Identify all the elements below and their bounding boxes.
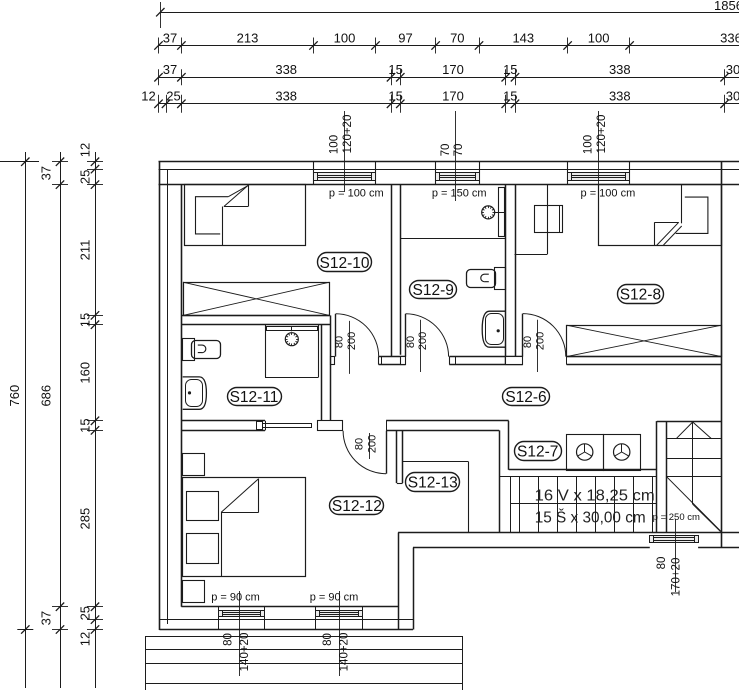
shower symbol S12-9 [482, 206, 495, 219]
pillow 2 [187, 534, 219, 564]
svg-text:15: 15 [388, 89, 402, 104]
svg-text:80: 80 [656, 557, 668, 570]
stairs: walking line [692, 422, 694, 504]
shower symbol tick [485, 207, 486, 209]
svg-text:70: 70 [453, 144, 465, 157]
stair tread [510, 476, 512, 532]
terrace line [145, 649, 462, 651]
bathtub S12-11 [183, 377, 207, 409]
desk with chair [535, 206, 563, 233]
nightstand bottom [183, 581, 205, 603]
svg-text:170: 170 [442, 62, 464, 77]
svg-text:S12-11: S12-11 [230, 389, 279, 406]
dimension line row4 [159, 103, 739, 105]
machine drum spoke [584, 444, 586, 452]
machine drum spoke [578, 452, 585, 456]
svg-text:80: 80 [334, 336, 346, 348]
bathtub inner [486, 314, 504, 345]
stair tread [614, 476, 616, 532]
stair tread [576, 476, 578, 532]
svg-text:p = 150 cm: p = 150 cm [432, 188, 487, 200]
shower symbol tick [492, 209, 494, 210]
shower symbol tick [490, 216, 491, 218]
vertical dim line C [95, 152, 97, 688]
extension line left edge [0, 161, 39, 163]
window dim leader W1 [344, 111, 346, 192]
top wall inner face [159, 184, 739, 186]
vertical dim line A (760) [25, 152, 27, 688]
svg-text:760: 760 [7, 385, 22, 407]
room label S12-8 [618, 285, 664, 304]
svg-text:15: 15 [503, 89, 517, 104]
terrace line [145, 683, 462, 685]
room label S12-13 [406, 473, 460, 492]
stair tread [557, 476, 559, 532]
svg-text:S12-10: S12-10 [320, 255, 370, 272]
top wall outer face [159, 161, 739, 163]
double bed S12-12 [183, 478, 306, 577]
shower symbol tick [296, 339, 298, 341]
bathtub S12-9 [482, 311, 506, 347]
svg-text:37: 37 [39, 611, 54, 625]
svg-text:p = 90 cm: p = 90 cm [211, 592, 260, 604]
room label S12-11 [228, 388, 282, 406]
S12-13 niche outline [403, 461, 469, 463]
shower symbol tick [296, 336, 298, 337]
stair zone top wall line [657, 421, 722, 423]
shower symbol tick [483, 215, 485, 216]
window stair p=250cm [650, 536, 699, 543]
toilet bowl [467, 270, 496, 288]
toilet bowl inner [481, 274, 489, 282]
dimension line row3 [159, 77, 739, 79]
svg-text:15: 15 [388, 62, 402, 77]
svg-text:140+20: 140+20 [339, 633, 351, 672]
svg-text:100: 100 [583, 135, 595, 154]
svg-text:12: 12 [78, 143, 93, 157]
svg-text:100: 100 [588, 30, 610, 45]
svg-text:p = 90 cm: p = 90 cm [310, 592, 359, 604]
toilet bowl [192, 341, 221, 359]
svg-text:160: 160 [78, 362, 93, 384]
window W3 p=100cm [568, 173, 630, 181]
door D4 leaf [386, 431, 388, 474]
wall between S12-10 and S12-11 [181, 315, 330, 317]
machine drum spoke [621, 444, 623, 452]
shower symbol tick [286, 341, 288, 342]
svg-text:S12-12: S12-12 [332, 498, 382, 515]
interior wall S12-9 / S12-8 [505, 185, 507, 365]
svg-text:338: 338 [275, 89, 297, 104]
door D2 dim leader [420, 320, 422, 372]
svg-text:S12-9: S12-9 [413, 282, 454, 299]
vertical dim line B (37/686/37) [60, 152, 62, 688]
svg-text:200: 200 [417, 332, 429, 350]
blanket fold diagonal [657, 222, 679, 245]
svg-text:100: 100 [329, 135, 341, 154]
terrace right edge [462, 636, 464, 690]
window W1 p=100cm [314, 173, 376, 181]
shower symbol tick [291, 326, 293, 331]
room label S12-9 [410, 281, 457, 299]
shower symbol tick [285, 339, 287, 341]
shower symbol tick [493, 212, 495, 214]
svg-text:37: 37 [39, 166, 54, 180]
toilet tank [183, 339, 195, 361]
shower symbol tick [291, 333, 293, 335]
svg-text:37: 37 [163, 30, 177, 45]
door D3 swing arc [523, 314, 566, 357]
svg-text:80: 80 [405, 336, 417, 348]
shower symbol tick [490, 207, 491, 209]
blanket fold diagonal 2 [228, 186, 247, 197]
stair zone bottom wall bottom line [413, 547, 650, 549]
shower symbol tick [289, 334, 290, 336]
stair tread [538, 476, 540, 532]
window jamb [375, 162, 377, 185]
right wall inner face [721, 162, 723, 548]
svg-text:p = 100 cm: p = 100 cm [581, 188, 636, 200]
window dim leader bottom1 [239, 591, 241, 676]
bottom wall inner face [181, 606, 398, 608]
shower glass partition S12-9 [499, 188, 505, 237]
svg-text:S12-6: S12-6 [505, 389, 546, 406]
window dim leader stair [675, 519, 677, 592]
svg-text:12: 12 [141, 89, 155, 104]
door D1 swing arc [336, 314, 379, 357]
svg-text:12: 12 [78, 632, 93, 646]
dimension line row2 [159, 45, 739, 47]
washing machine 2 [604, 435, 641, 471]
svg-text:80: 80 [322, 633, 334, 646]
window jamb [567, 162, 569, 185]
sliding door leaf (bath S12-11) [262, 424, 312, 428]
shower symbol tick [286, 336, 288, 337]
shower bar [267, 327, 318, 331]
shower symbol tick [492, 215, 494, 216]
svg-text:200: 200 [367, 435, 379, 453]
bed S12-10 outline [185, 185, 306, 246]
door D1 leaf [335, 314, 337, 357]
window bottom-left 1 p=90cm [219, 611, 265, 617]
stairs: direction arrow [676, 422, 693, 439]
machine drum spoke [615, 452, 622, 456]
bathtub inner [186, 380, 203, 407]
window bottom-left 2 p=90cm [316, 611, 363, 617]
shower symbol tick [294, 343, 295, 345]
left wall inner face [181, 185, 183, 607]
stair zone bottom wall top line [398, 532, 739, 534]
svg-text:S12-7: S12-7 [517, 443, 558, 460]
shower S12-11 [265, 325, 267, 377]
window jamb [629, 162, 631, 185]
svg-text:37: 37 [163, 62, 177, 77]
svg-text:338: 338 [275, 62, 297, 77]
door D2 swing arc [406, 314, 449, 357]
jamb block between bath opening and door D4 [318, 421, 343, 431]
svg-text:338: 338 [609, 89, 631, 104]
wall S12-12 / S12-13 [396, 430, 398, 483]
room label S12-12 [330, 497, 384, 515]
svg-text:80: 80 [522, 336, 534, 348]
door D4 swing arc [343, 431, 386, 474]
stair tread [652, 476, 654, 532]
svg-text:686: 686 [39, 385, 54, 407]
terrace line [145, 663, 462, 665]
closet crossed box [184, 283, 330, 316]
room label S12-7 [515, 442, 562, 461]
door D1 dim leader [349, 321, 351, 374]
shower symbol tick [485, 216, 486, 218]
door D2 left jamb block [401, 357, 406, 365]
svg-text:25: 25 [166, 89, 180, 104]
corridor/S12-7 corner wall [508, 421, 510, 470]
svg-text:285: 285 [78, 508, 93, 530]
svg-text:170+20: 170+20 [671, 558, 683, 597]
shower symbol tick [291, 344, 293, 346]
window dim leader W2 [455, 111, 457, 201]
bottom wall middle line [160, 619, 414, 621]
bottom wall outer face [160, 629, 414, 631]
shower symbol tick [289, 343, 290, 345]
svg-text:15 Š x 30,00 cm: 15 Š x 30,00 cm [535, 508, 646, 527]
desk partition line [547, 185, 549, 255]
svg-text:30: 30 [726, 62, 739, 77]
svg-text:80: 80 [354, 438, 366, 450]
bed S12-8 outline [599, 185, 722, 246]
window dim leader W3 [598, 111, 600, 192]
door D3 dim leader [537, 320, 539, 372]
terrace left edge [145, 636, 147, 690]
svg-text:120+20: 120+20 [342, 115, 354, 154]
svg-text:97: 97 [398, 30, 412, 45]
svg-text:p = 100 cm: p = 100 cm [329, 188, 384, 200]
shower symbol tick [296, 341, 298, 342]
svg-text:25: 25 [78, 170, 93, 184]
svg-text:336: 336 [720, 30, 739, 45]
left wall outer face [159, 162, 161, 630]
flight middle line [510, 503, 657, 505]
svg-text:15: 15 [78, 418, 93, 432]
interior wall S12-10 / S12-9 [391, 185, 393, 357]
wall end cap [397, 483, 403, 485]
svg-text:143: 143 [512, 30, 534, 45]
window jamb [435, 162, 437, 185]
svg-text:S12-8: S12-8 [620, 286, 661, 303]
svg-text:140+20: 140+20 [239, 633, 251, 672]
svg-text:1856: 1856 [714, 0, 739, 13]
svg-text:120+20: 120+20 [596, 115, 608, 154]
left wall middle line [167, 169, 169, 624]
pillow 1 [187, 492, 219, 521]
washing machine 1 [567, 435, 604, 471]
step wall right line [413, 548, 415, 630]
window W2 p=150cm [436, 173, 480, 181]
closet crossed box [567, 326, 722, 357]
stair tread [633, 476, 635, 532]
stairs: upper flight treads [666, 438, 721, 440]
door1 jamb block [331, 357, 335, 365]
sliding door end cap [257, 422, 263, 430]
machine drum spoke [622, 452, 629, 456]
step wall left line [398, 533, 400, 630]
door D2 leaf [405, 314, 407, 357]
wall S12-11 right (bath/corridor) [321, 325, 323, 421]
window jamb [313, 162, 315, 185]
shower symbol tick [488, 206, 490, 208]
toilet tank [495, 268, 506, 290]
door D3 left jamb block [506, 357, 523, 365]
shower symbol tick [294, 334, 295, 336]
svg-text:30: 30 [726, 89, 739, 104]
shower area line S12-9 [400, 238, 505, 240]
stair tread [519, 476, 521, 532]
svg-text:213: 213 [237, 30, 259, 45]
svg-text:211: 211 [78, 240, 93, 261]
shower symbol tick [482, 212, 484, 214]
window jamb [479, 162, 481, 185]
terrace line [145, 636, 462, 638]
blanket fold diagonal [224, 185, 248, 206]
shower symbol tick [488, 217, 490, 219]
corridor bottom wall y=420.8..430.4 [181, 420, 265, 422]
stair zone bottom wall bottom line right [698, 547, 739, 549]
stair tread [595, 476, 597, 532]
svg-text:S12-13: S12-13 [408, 474, 458, 491]
window dim leader bottom2 [339, 591, 341, 676]
S12-7 niche bottom line [509, 469, 657, 471]
blanket fold diagonal 2 [664, 226, 682, 245]
flight top line [499, 476, 657, 478]
machine drum spoke [585, 452, 592, 456]
svg-text:200: 200 [534, 332, 546, 350]
svg-text:25: 25 [78, 606, 93, 620]
dimension line row1 [160, 12, 739, 14]
nightstand top [183, 454, 205, 476]
toilet bowl inner [198, 345, 206, 353]
svg-text:p = 250 cm: p = 250 cm [653, 512, 700, 523]
svg-text:80: 80 [223, 633, 235, 646]
stairwell left wall [656, 421, 658, 532]
svg-text:100: 100 [334, 30, 356, 45]
svg-text:170: 170 [442, 89, 464, 104]
svg-text:70: 70 [450, 30, 464, 45]
room label S12-10 [318, 253, 372, 272]
shower symbol tick [483, 209, 485, 210]
door D3 leaf [522, 314, 524, 357]
svg-text:200: 200 [346, 332, 358, 350]
svg-text:338: 338 [609, 62, 631, 77]
stairs: break diagonal [666, 476, 721, 531]
svg-text:70: 70 [440, 144, 452, 157]
svg-text:15: 15 [78, 313, 93, 327]
svg-text:15: 15 [503, 62, 517, 77]
svg-text:16 V x 18,25 cm: 16 V x 18,25 cm [535, 488, 655, 505]
blanket fold diagonal [221, 479, 259, 513]
door D4 dim leader [369, 433, 371, 459]
room label S12-6 [503, 388, 550, 406]
top wall insulation line [159, 169, 739, 171]
